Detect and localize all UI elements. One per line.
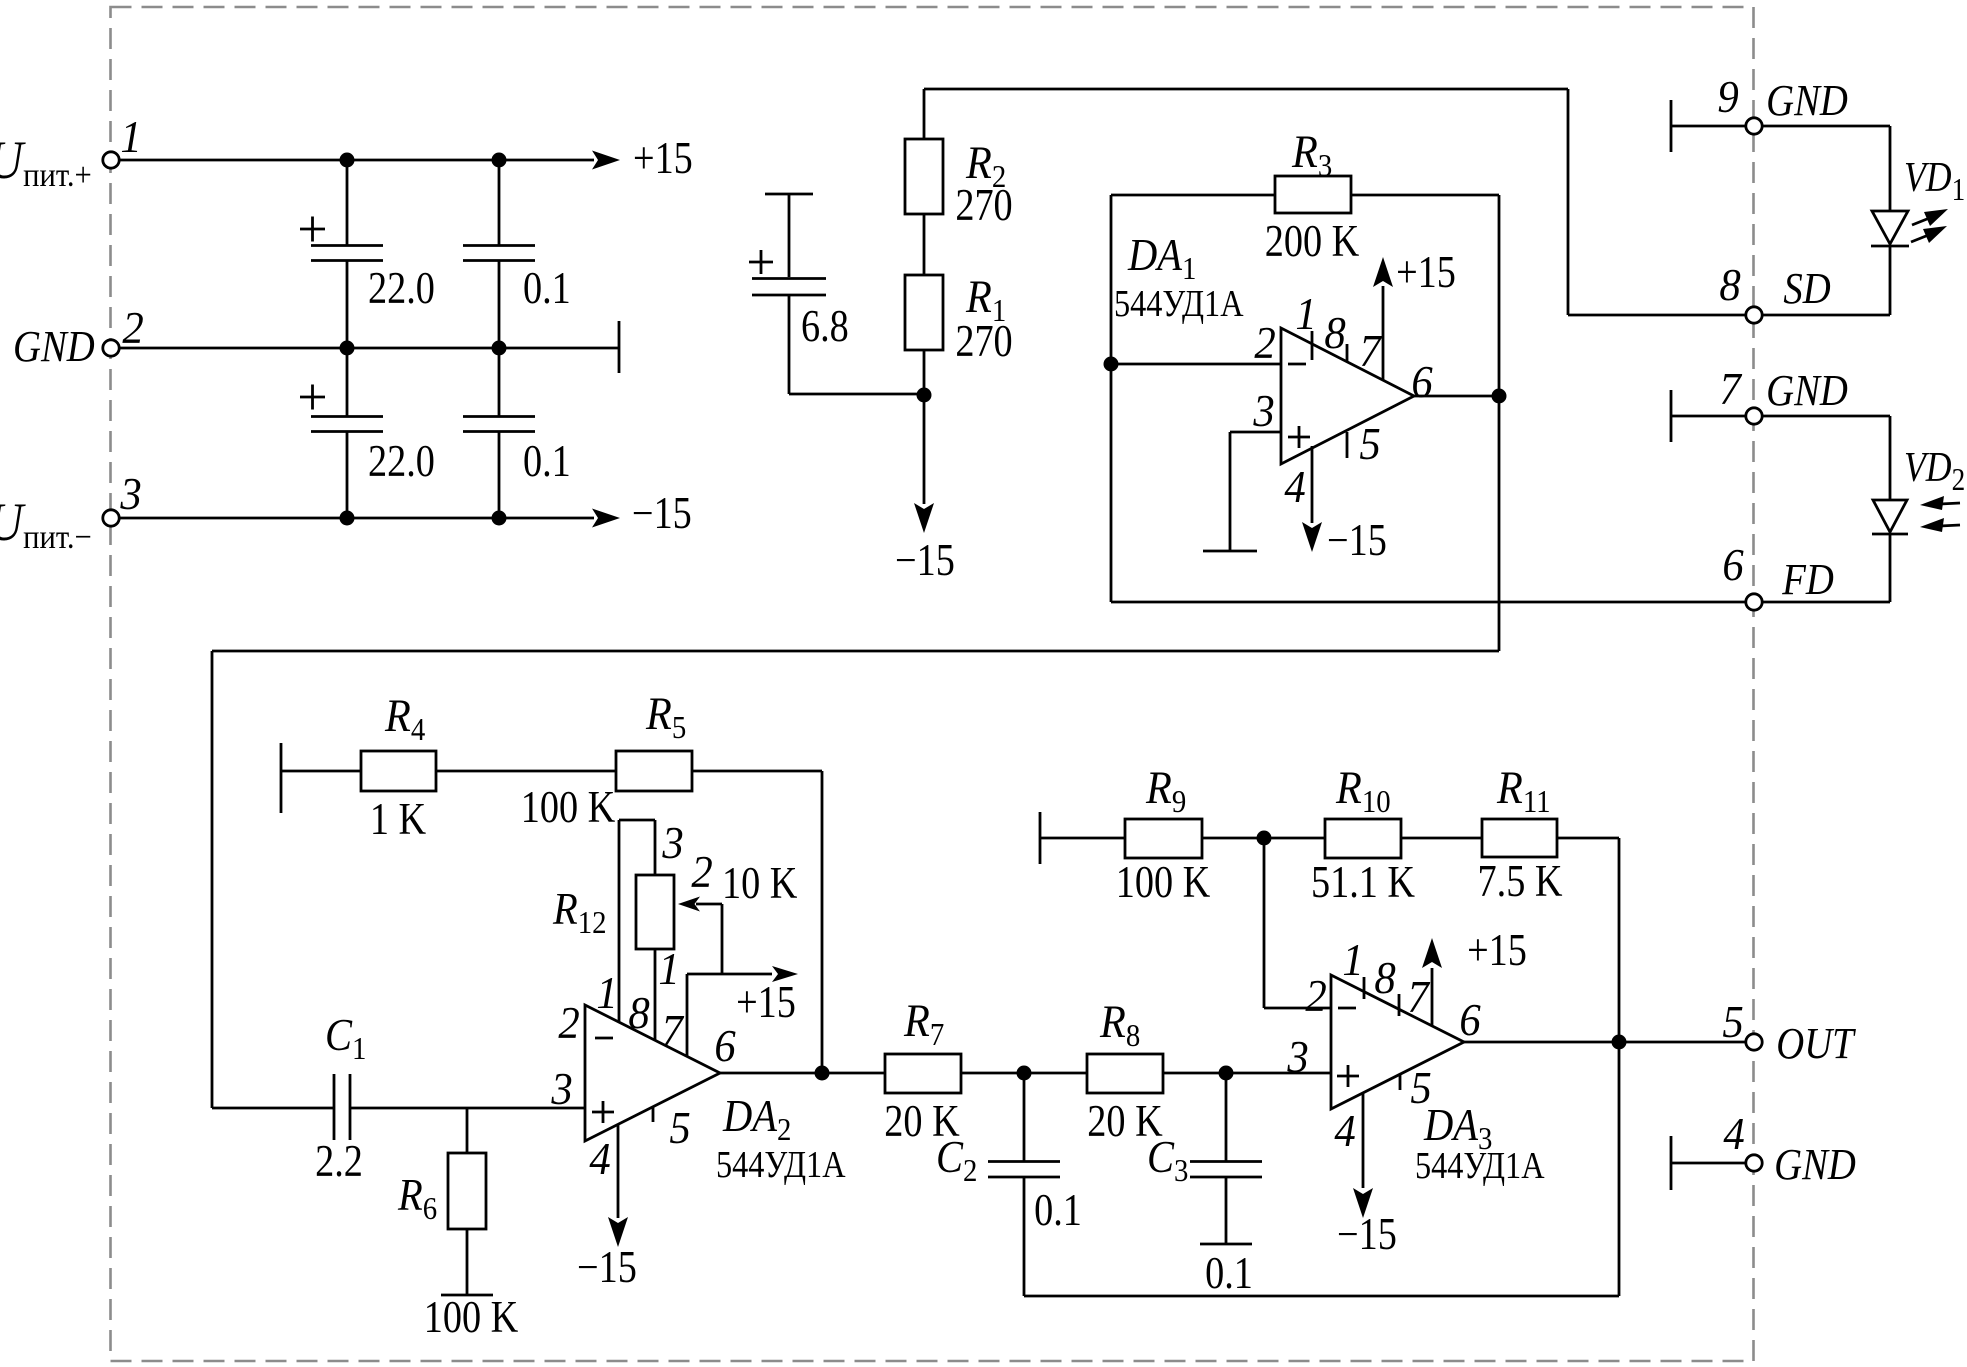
svg-text:3: 3 (119, 470, 141, 519)
arrow +15 DA2 (772, 966, 798, 982)
wire cap 6.8 to node (789, 393, 924, 396)
wire R2 to R1 (923, 214, 926, 275)
svg-text:9: 9 (1717, 73, 1738, 122)
pin tick DA1 pin8 (1346, 344, 1349, 362)
svg-text:6.8: 6.8 (801, 302, 849, 352)
svg-text:0.1: 0.1 (1205, 1249, 1253, 1299)
svg-text:1 K: 1 K (370, 795, 426, 845)
wire DA3 inverting input (1264, 1007, 1331, 1010)
svg-text:0.1: 0.1 (1034, 1186, 1082, 1236)
wire DA1 output (1414, 395, 1499, 398)
wire to cap 22.0 lower (346, 348, 349, 416)
junction DA2 output (815, 1066, 830, 1081)
svg-text:1: 1 (1342, 936, 1363, 985)
junction C(22.0) on GND row (340, 341, 355, 356)
svg-text:1: 1 (596, 969, 617, 1018)
junction DA1 output (1492, 389, 1507, 404)
svg-text:−15: −15 (632, 489, 692, 539)
wire R12 wiper down (721, 904, 724, 974)
plus sign cap 22.0 lower (300, 396, 325, 399)
resistor R1 (905, 275, 943, 350)
wire R10 to R11 (1401, 837, 1482, 840)
wire FD net horizontal (1111, 601, 1890, 604)
wiper arrow R12 (696, 903, 722, 906)
svg-text:100 K: 100 K (1116, 858, 1211, 908)
svg-text:1: 1 (1295, 290, 1316, 339)
wire R12 pin1 down to DA2 pin8 (654, 949, 657, 1040)
wire SD net right (1567, 89, 1570, 315)
svg-text:+15: +15 (633, 134, 693, 184)
terminal 5 (1746, 1034, 1762, 1050)
wire DA3 -15 supply (1362, 1093, 1365, 1188)
wire wiper to +15 line (687, 973, 722, 976)
capacitor 0.1 lower (463, 417, 535, 432)
svg-text:7: 7 (1359, 327, 1382, 376)
wire bar to cap 6.8 (788, 194, 791, 277)
potentiometer R12 body (636, 875, 674, 949)
terminator bar R4 (280, 743, 283, 813)
resistor R6 (448, 1153, 486, 1229)
svg-text:8: 8 (628, 989, 649, 1038)
wire DA3 output (1464, 1041, 1745, 1044)
pin tick DA1 pin5 (1346, 432, 1349, 458)
wire cap 0.1 lower to -15 row (498, 431, 501, 518)
wire DA2 output (720, 1072, 885, 1075)
resistor R4 (361, 751, 436, 791)
wire R4 to R5 (436, 770, 616, 773)
wire cap 6.8 down (788, 294, 791, 394)
svg-text:270: 270 (955, 317, 1012, 367)
ground bar R6 (441, 1294, 493, 1297)
wire to cap 22.0 upper (346, 160, 349, 245)
wire SD net top horizontal (924, 88, 1568, 91)
photodiode VD2 triangle (1873, 500, 1907, 532)
op-amp DA3 triangle (1331, 975, 1464, 1109)
plus marker DA3 (1337, 1075, 1359, 1078)
wire C2 up (1023, 1073, 1026, 1161)
junction C(0.1) on -15 rail (492, 511, 507, 526)
svg-text:7: 7 (1719, 365, 1742, 414)
svg-text:−15: −15 (577, 1243, 637, 1293)
ground bar terminal 9 (1670, 100, 1673, 152)
svg-text:8: 8 (1719, 261, 1740, 310)
svg-text:3: 3 (661, 819, 683, 868)
wire DA1 output to lower stage (212, 650, 1499, 653)
svg-text:GND: GND (1774, 1140, 1856, 1189)
wire R12 pin3 up (654, 820, 657, 875)
terminal 9 (1746, 118, 1762, 134)
wire DA1 output down (1498, 396, 1501, 651)
arrow +15 DA3 (1422, 938, 1442, 968)
wire bar to R4 (281, 770, 361, 773)
wire VD1 anode (1889, 126, 1892, 211)
wire DA1 noninv input (1230, 431, 1281, 434)
wire bottom return (1024, 1295, 1619, 1298)
svg-text:5: 5 (1722, 998, 1743, 1047)
wire DA2 -15 supply (617, 1125, 620, 1218)
svg-text:2: 2 (691, 848, 712, 897)
pin tick DA3 pin8 (1398, 994, 1401, 1016)
svg-text:SD: SD (1783, 264, 1830, 313)
plus marker DA1 (1288, 436, 1310, 439)
svg-text:7.5 K: 7.5 K (1478, 857, 1563, 907)
arrow +15 DA1 (1373, 257, 1393, 287)
svg-text:22.0: 22.0 (368, 437, 435, 487)
wire Upit+ row (111, 159, 594, 162)
arrow -15 rail (592, 509, 620, 528)
svg-text:1: 1 (120, 113, 141, 162)
resistor R10 (1325, 819, 1401, 858)
wire SD net down to R2 (923, 89, 926, 139)
minus marker DA1 (1288, 363, 1306, 366)
svg-text:−15: −15 (1327, 516, 1387, 566)
svg-text:5: 5 (1359, 420, 1380, 469)
wire to cap 0.1 lower (498, 348, 501, 416)
svg-text:GND: GND (1766, 76, 1848, 125)
capacitor C2 (988, 1162, 1060, 1178)
svg-text:270: 270 (955, 181, 1012, 231)
capacitor 6.8 (752, 279, 826, 296)
minus marker DA2 (595, 1037, 613, 1040)
terminal 3 (103, 510, 119, 526)
svg-text:+15: +15 (1467, 926, 1527, 976)
svg-text:−15: −15 (895, 536, 955, 586)
terminal 7 (1746, 408, 1762, 424)
wire C2 down (1023, 1177, 1026, 1296)
wire R8 to DA3 (1163, 1072, 1331, 1075)
svg-text:+15: +15 (736, 978, 796, 1028)
wire lower stage left vertical (211, 651, 214, 1108)
wire R9 to R10 (1202, 837, 1325, 840)
junction R7/C2 (1017, 1066, 1032, 1081)
ground bar C3 (1200, 1243, 1252, 1246)
wire GND row (111, 347, 619, 350)
wire R6 down (466, 1229, 469, 1295)
wire DA1 -15 supply (1311, 446, 1314, 523)
photodiode VD2 light arrow lower (1940, 525, 1960, 526)
svg-text:5: 5 (669, 1104, 690, 1153)
wire Upit- row (111, 517, 594, 520)
svg-text:2.2: 2.2 (315, 1137, 363, 1187)
terminal 8 (1746, 307, 1762, 323)
svg-text:4: 4 (1334, 1107, 1355, 1156)
pin tick DA1 pin1 (1311, 331, 1314, 360)
svg-text:GND: GND (13, 322, 95, 371)
terminal 6 (1746, 594, 1762, 610)
pin tick DA3 pin1 (1363, 977, 1366, 999)
junction R9/R10 (1257, 831, 1272, 846)
arrow -15 DA3 (1353, 1188, 1373, 1218)
pin tick DA3 pin5 (1399, 1074, 1402, 1090)
ground bar GND row (618, 321, 621, 373)
svg-text:2: 2 (558, 999, 579, 1048)
wire to C1 (212, 1107, 335, 1110)
terminal 2 (103, 340, 119, 356)
op-amp DA1 triangle (1281, 328, 1414, 464)
svg-text:3: 3 (1286, 1033, 1308, 1082)
svg-text:544УД1А: 544УД1А (1415, 1145, 1545, 1187)
svg-text:4: 4 (589, 1135, 610, 1184)
wire cap 22.0 lower to -15 row (346, 431, 349, 518)
resistor R8 (1087, 1054, 1163, 1093)
resistor R7 (885, 1054, 961, 1093)
junction C(0.1) on GND row (492, 341, 507, 356)
junction R8/C3 (1219, 1066, 1234, 1081)
svg-text:0.1: 0.1 (523, 264, 571, 314)
wire R11 down to output (1618, 838, 1621, 1296)
capacitor 22.0 lower (311, 417, 383, 432)
capacitor C1 right plate (349, 1074, 352, 1140)
wire R12 pin3 across (619, 819, 655, 822)
svg-text:0.1: 0.1 (523, 437, 571, 487)
terminator bar above cap 6.8 (765, 193, 813, 196)
junction R1/C6.8/-15 (917, 388, 932, 403)
arrow +15 rail (592, 151, 620, 170)
svg-text:544УД1А: 544УД1А (716, 1144, 846, 1186)
svg-text:GND: GND (1766, 366, 1848, 415)
minus marker DA3 (1338, 1007, 1356, 1010)
svg-text:4: 4 (1723, 1110, 1744, 1159)
wire terminal 7 GND (1671, 415, 1890, 418)
svg-text:22.0: 22.0 (368, 264, 435, 314)
junction DA3 output (1612, 1035, 1627, 1050)
ground bar terminal 7 (1670, 390, 1673, 442)
wire C3 down (1225, 1177, 1228, 1244)
junction DA1 inverting input (1104, 357, 1119, 372)
wire C3 up (1225, 1073, 1228, 1161)
pin tick DA2 pin5 (652, 1107, 655, 1122)
LED VD1 triangle (1872, 211, 1908, 244)
resistor R3 (1275, 176, 1351, 213)
wire R7 to R8 (961, 1072, 1087, 1075)
svg-text:2: 2 (1254, 319, 1275, 368)
photodiode VD2 cathode bar (1872, 533, 1908, 536)
terminator bar R9 (1039, 812, 1042, 864)
junction C(22.0) on +15 rail (340, 153, 355, 168)
svg-text:51.1 K: 51.1 K (1311, 858, 1415, 908)
LED VD1 light arrow lower (1911, 234, 1931, 242)
plus sign cap 6.8 (749, 261, 773, 264)
wire SD row (1568, 314, 1890, 317)
wire terminal 4 GND (1671, 1162, 1745, 1165)
wire terminal 9 GND (1671, 125, 1890, 128)
wire R11 right (1557, 837, 1619, 840)
feedback box DA1 left edge (1110, 195, 1113, 602)
wire cap 22.0 upper to GND (346, 260, 349, 348)
terminal 1 (103, 152, 119, 168)
wire R5 to output node (692, 770, 822, 773)
capacitor 0.1 upper (463, 246, 535, 261)
wire cap 0.1 upper to GND (498, 260, 501, 348)
svg-text:8: 8 (1324, 309, 1345, 358)
plus marker DA2 (592, 1111, 614, 1114)
wire DA1 noninv down (1229, 432, 1232, 551)
svg-text:200 K: 200 K (1265, 217, 1360, 267)
LED VD1 cathode bar (1871, 245, 1909, 248)
arrow -15 DA1 (1302, 522, 1322, 552)
wire DA2 pin7 up (686, 974, 689, 1056)
svg-text:OUT: OUT (1776, 1019, 1856, 1068)
wire R6 up (466, 1108, 469, 1153)
resistor R9 (1125, 819, 1202, 858)
wire C1 to DA2 noninv (350, 1107, 585, 1110)
resistor R11 (1482, 819, 1557, 857)
arrow -15 (divider) (914, 503, 934, 533)
svg-text:8: 8 (1374, 954, 1395, 1003)
svg-text:3: 3 (550, 1065, 572, 1114)
arrow -15 DA2 (608, 1217, 628, 1247)
LED VD1 light arrow upper (1912, 217, 1932, 225)
capacitor C3 (1190, 1162, 1262, 1178)
wire DA1 +15 supply (1382, 286, 1385, 381)
terminal 4 (1746, 1155, 1762, 1171)
svg-text:−15: −15 (1337, 1210, 1397, 1260)
svg-text:6: 6 (714, 1022, 735, 1071)
wire bar to R9 (1040, 837, 1125, 840)
ground bar terminal 4 (1670, 1136, 1673, 1190)
svg-text:4: 4 (1284, 463, 1305, 512)
svg-text:3: 3 (1252, 387, 1274, 436)
svg-text:7: 7 (1407, 973, 1430, 1022)
svg-text:+15: +15 (1396, 248, 1456, 298)
svg-text:2: 2 (1305, 972, 1326, 1021)
resistor R5 (616, 751, 692, 791)
capacitor 22.0 upper (311, 246, 383, 261)
plus sign cap 22.0 upper (300, 228, 325, 231)
junction C(22.0) on -15 rail (340, 511, 355, 526)
svg-text:7: 7 (661, 1007, 684, 1056)
svg-text:6: 6 (1459, 996, 1480, 1045)
wire VD2 anode (1889, 416, 1892, 500)
svg-text:FD: FD (1781, 555, 1834, 604)
wire DA3 +15 supply (1431, 968, 1434, 1026)
wire DA3 inverting down (1263, 838, 1266, 1008)
svg-text:544УД1А: 544УД1А (1114, 283, 1244, 325)
svg-text:10 K: 10 K (722, 859, 797, 909)
feedback box DA1 top edge (1111, 194, 1499, 197)
photodiode VD2 light arrow upper (1940, 503, 1960, 504)
wire node to -15 arrow (923, 395, 926, 504)
wire +15 line DA2 (722, 973, 772, 976)
wire to cap 0.1 upper (498, 160, 501, 245)
wire DA1 inverting input (1111, 363, 1283, 366)
svg-text:6: 6 (1411, 358, 1432, 407)
junction C(0.1) on +15 rail (492, 153, 507, 168)
svg-text:100 K: 100 K (521, 783, 616, 833)
svg-text:100 K: 100 K (424, 1293, 519, 1343)
wire VD1 cathode (1889, 246, 1892, 315)
svg-text:6: 6 (1722, 541, 1743, 590)
svg-text:1: 1 (658, 945, 679, 994)
svg-text:2: 2 (122, 304, 143, 353)
wire R1 to node (923, 350, 926, 395)
feedback box DA1 right edge (1498, 195, 1501, 395)
wire R5 down to DA2 output (821, 771, 824, 1073)
resistor R2 (905, 139, 943, 214)
ground bar DA1 noninv (1203, 550, 1257, 553)
capacitor C1 left plate (333, 1074, 336, 1140)
wire R12 pin3 down to DA2 pin1 (618, 820, 621, 1022)
op-amp DA2 triangle (585, 1005, 720, 1141)
wire VD2 cathode (1889, 534, 1892, 602)
